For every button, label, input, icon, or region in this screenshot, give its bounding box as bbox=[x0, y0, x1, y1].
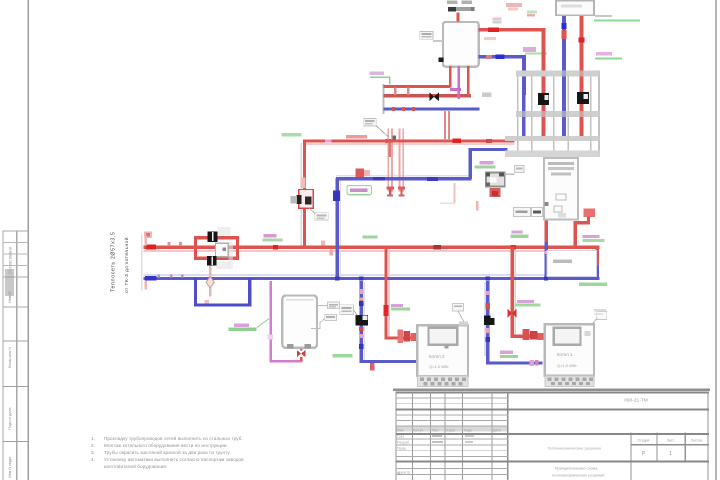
tick red below main x330 bbox=[330, 249, 334, 255]
boiler1 door bbox=[429, 328, 458, 345]
wire blue right end drop bbox=[595, 266, 599, 281]
buffer tank left leader bbox=[433, 40, 443, 42]
svg-text:Теплосеть 2Ø57х3,5: Теплосеть 2Ø57х3,5 bbox=[111, 231, 117, 292]
check valve bowtie under DHW tank a bbox=[297, 350, 301, 357]
wire blue line y109 bbox=[384, 107, 480, 110]
tick on blue main x181 bbox=[181, 274, 184, 277]
tick on blue main x170 bbox=[170, 274, 173, 277]
boiler2 right cap bbox=[584, 331, 590, 336]
elevator bypass left vertical bbox=[194, 236, 197, 260]
red stub tank to valve bbox=[300, 346, 303, 350]
DHW label box 2 bbox=[325, 314, 337, 320]
signature marks bbox=[432, 435, 442, 437]
red double drop to y140 line b bbox=[448, 111, 450, 141]
black valve top of elevator bbox=[207, 231, 217, 242]
svg-text:3.: 3. bbox=[91, 450, 95, 455]
wire red to boiler2 y336 bbox=[510, 335, 545, 338]
circulation pump B notch bbox=[584, 94, 588, 99]
heat exchanger red overlay left bbox=[388, 141, 391, 157]
pump P2 white notch bbox=[490, 313, 495, 318]
buffer tank left label bars bbox=[421, 33, 431, 35]
wire red to boiler1 y337 bbox=[384, 336, 418, 339]
red elbow down x543 bbox=[542, 28, 546, 93]
boiler1 label bar bbox=[454, 305, 462, 307]
junction tick blue main x487 bbox=[486, 276, 490, 280]
svg-text:Дата: Дата bbox=[493, 428, 501, 432]
manifold gray upright 1 bbox=[517, 77, 519, 151]
tick red below pump x361 bbox=[359, 327, 364, 331]
boiler2 label box above right bbox=[597, 311, 607, 319]
svg-text:Принципиальная схема: Принципиальная схема bbox=[555, 466, 599, 471]
label magenta green right of boiler1 riser bbox=[391, 304, 403, 307]
valve bowtie on boiler2 riser a bbox=[508, 309, 512, 318]
magenta cold water riser x270 bbox=[270, 281, 272, 362]
svg-text:Котел 1: Котел 1 bbox=[557, 352, 573, 357]
leader line to valve bbox=[309, 208, 315, 214]
red tick on blue y109 c bbox=[412, 107, 415, 111]
heat exchanger bottom header b bbox=[398, 186, 405, 189]
wire blue boiler2 return y362 bbox=[486, 361, 542, 364]
red boiler1 riser x386 bbox=[384, 247, 387, 338]
blue pump riser x361 bbox=[360, 281, 363, 361]
pale diamond on drain bbox=[206, 277, 214, 288]
blue elbow down x526 bbox=[522, 55, 526, 95]
heat exchanger foot a bbox=[387, 194, 393, 196]
red boiler2 riser x512 bbox=[510, 247, 514, 337]
manifold bar overlays bbox=[516, 71, 600, 77]
mixing valve dark corner b bbox=[499, 173, 504, 177]
green tick line at elbow bbox=[525, 53, 547, 55]
svg-text:от ТК-3 до котельной: от ТК-3 до котельной bbox=[123, 237, 130, 293]
label box with leader under valve bbox=[315, 213, 328, 220]
DHW tank cylinder bbox=[282, 296, 317, 348]
magenta label above blue elbow bbox=[523, 47, 536, 52]
DHW label box 1 bars bbox=[329, 304, 338, 306]
tick pink on riser x488 bbox=[485, 291, 490, 295]
actuator black part b bbox=[305, 196, 311, 204]
heat exchanger label box bbox=[364, 118, 376, 126]
label green above boiler1 return bbox=[332, 354, 352, 357]
valve cluster boiler1 inlet a bbox=[398, 330, 404, 344]
heat exchanger bottom stub a bbox=[389, 189, 391, 195]
title col line x462 bbox=[462, 392, 463, 480]
tall box text line1 bbox=[548, 162, 574, 165]
dark tick upper red line x486 bbox=[486, 139, 492, 143]
title row b1 bbox=[395, 438, 508, 441]
tall box left label box a bbox=[514, 207, 531, 216]
tall box edge tick bbox=[545, 202, 549, 206]
wire red main right end drop bbox=[595, 247, 599, 267]
pale stub b bbox=[476, 201, 478, 211]
title row izm thick bbox=[395, 433, 709, 435]
green elbow line upper left bbox=[370, 77, 390, 84]
red inlet stub down bbox=[144, 280, 147, 289]
red riser from tall box x546 bbox=[544, 220, 547, 244]
left stamp row line 5 bbox=[3, 277, 29, 278]
junction tick blue main x336 bbox=[335, 276, 339, 280]
black valve bottom white slit bbox=[211, 257, 213, 265]
wire magenta cold water bottom run bbox=[270, 360, 303, 363]
heat exchanger leader line bbox=[376, 126, 389, 137]
svg-text:N док.: N док. bbox=[446, 428, 456, 432]
dark segment on upper blue line left of HX bbox=[373, 177, 385, 181]
boiler2 base strip bbox=[545, 376, 594, 387]
top box faint text bbox=[561, 5, 582, 8]
tick on red main x167 bbox=[167, 242, 170, 246]
svg-text:Котел 2: Котел 2 bbox=[429, 354, 445, 359]
circulation pump A notch bbox=[545, 95, 549, 100]
red jog horizontal x577 bbox=[574, 221, 591, 224]
pale tick above valve bbox=[301, 178, 306, 189]
svg-text:Q=1,0 МВт: Q=1,0 МВт bbox=[429, 364, 449, 369]
pale companion riser x386 bbox=[388, 249, 390, 337]
title row c2 bbox=[395, 473, 508, 476]
manifold gray upright 5 bbox=[590, 77, 592, 151]
pale companion riser x361 bbox=[363, 282, 365, 360]
NOTES bbox=[91, 435, 244, 469]
pump label leader bbox=[353, 310, 357, 315]
title right edge bbox=[707, 392, 708, 480]
svg-text:Монтаж котельного оборудования: Монтаж котельного оборудования вести по … bbox=[104, 443, 228, 448]
elevator gray housing fuzz right bbox=[229, 242, 234, 269]
valve cluster boiler2 inlet a bbox=[523, 329, 530, 340]
junction tick blue main x360 bbox=[359, 276, 363, 280]
red tick on blue outlet bbox=[486, 55, 492, 59]
title row c1 bbox=[395, 467, 508, 470]
floor line bbox=[393, 388, 710, 391]
red double drop to y140 line a bbox=[444, 111, 446, 141]
PIPING bbox=[141, 139, 600, 371]
label pink green near tank outlet bbox=[493, 17, 502, 20]
mixing valve label box bbox=[515, 165, 524, 172]
pale companion above upper blue line bbox=[336, 175, 472, 177]
elevator gray housing fuzz upper bbox=[218, 227, 231, 236]
circulation pump A black bbox=[538, 93, 549, 105]
title header text row bbox=[397, 428, 501, 432]
faint boundary line at inlet bbox=[141, 235, 142, 291]
gate valve with actuator on riser x304 bbox=[299, 190, 314, 209]
valve bowtie on boiler2 riser b bbox=[512, 309, 517, 318]
label text bar bbox=[316, 215, 326, 217]
actuator black part a bbox=[297, 195, 302, 204]
boiler2 base hatch bbox=[548, 377, 594, 385]
pale companion above blue main bbox=[144, 274, 600, 276]
title row b3 bbox=[395, 449, 508, 452]
check valve bowtie under DHW tank b bbox=[301, 350, 305, 357]
wire upper blue line y178 bbox=[336, 177, 472, 180]
elevator bypass top pipe bbox=[194, 236, 239, 239]
heat exchanger pale pipe 1a bbox=[387, 129, 389, 192]
bright tick upper red line x386 bbox=[386, 139, 393, 143]
tick red on riser x488 bbox=[485, 303, 490, 309]
valve cluster boiler2 inlet b bbox=[530, 331, 538, 340]
pink segment on upper red line bbox=[325, 140, 332, 143]
elevator gray housing fuzz lower bbox=[216, 262, 230, 270]
pump P1 DHW black square bbox=[356, 315, 369, 325]
manifold mid bar bbox=[516, 111, 600, 117]
title col line x430 bbox=[430, 392, 431, 480]
red connector stub b between upper lines bbox=[407, 88, 410, 96]
leader green diagonal bbox=[257, 319, 269, 328]
boiler1 base hatch bbox=[420, 378, 466, 386]
junction tick blue main x545 bbox=[544, 276, 548, 280]
svg-text:Тепломеханические решения: Тепломеханические решения bbox=[547, 446, 600, 451]
wire blue boiler1 return y361 bbox=[360, 360, 418, 363]
valve cluster boiler2 inlet c bbox=[538, 333, 545, 340]
svg-text:N: N bbox=[398, 471, 401, 476]
svg-text:Разраб.: Разраб. bbox=[397, 441, 410, 445]
red tick on blue y109 a bbox=[392, 107, 395, 111]
label green above red main x511 bbox=[511, 234, 529, 237]
label gray text right of top box bbox=[595, 15, 612, 17]
mixing valve red blob below bbox=[490, 188, 501, 197]
manifold red riser 2 below pump bbox=[580, 104, 584, 136]
gray header pipe end x384 bbox=[383, 84, 385, 114]
pale companion riser x488 bbox=[484, 282, 486, 356]
left stamp row line 2 bbox=[3, 242, 29, 243]
blue riser x337 bbox=[336, 178, 339, 280]
tick darkblue2 below pump x361 bbox=[359, 344, 364, 349]
heat exchanger bottom header a bbox=[387, 186, 394, 189]
title col line x492 bbox=[492, 392, 493, 480]
tall box left label b dark text bbox=[533, 210, 541, 213]
tall box left label a text bbox=[516, 210, 528, 213]
valve on boiler1 riser bbox=[383, 305, 388, 316]
label magenta above bbox=[234, 323, 249, 326]
label magenta green near valve cluster bbox=[480, 161, 494, 164]
title row a2 bbox=[395, 402, 508, 405]
elevator bypass right vertical bbox=[236, 236, 239, 260]
left stamp row line 4 bbox=[3, 265, 29, 266]
manifold top bar bbox=[516, 71, 600, 77]
bright valve on red outlet bbox=[488, 27, 499, 32]
DHW label leader 1 bbox=[317, 304, 327, 306]
red riser x304 bbox=[303, 141, 306, 247]
DHW tank foot b bbox=[305, 344, 312, 349]
red stub valve to magenta bbox=[300, 357, 303, 361]
label green pressure unit near riser x337 bbox=[347, 185, 372, 194]
manifold gray upright 6 bbox=[598, 71, 600, 158]
blue riser lower x546 bbox=[544, 242, 547, 278]
label green left of red corner x283 bbox=[282, 133, 302, 137]
label red blob top center bbox=[506, 3, 522, 7]
tick pink below pump x488 bbox=[485, 328, 490, 333]
svg-text:Пров.: Пров. bbox=[397, 447, 407, 451]
DHW label box 1 bbox=[327, 302, 339, 309]
title col line x657 bbox=[656, 433, 657, 463]
sheet left border bbox=[28, 0, 29, 480]
stage header texts bbox=[638, 439, 702, 443]
valve on blue main near inlet bbox=[145, 276, 157, 281]
blue dip loop left leg bbox=[194, 278, 197, 307]
DHW label leader 2 bbox=[311, 318, 325, 328]
svg-text:Инв.N˚: Инв.N˚ bbox=[7, 290, 12, 303]
valve cluster boiler1 inlet b bbox=[404, 331, 411, 342]
heat exchanger label bars bbox=[365, 120, 374, 122]
EQUIPMENT bbox=[282, 1, 606, 387]
boiler1 body bbox=[417, 325, 468, 376]
wire red tank outlet y30 bbox=[479, 28, 546, 31]
buffer tank black drain square bbox=[439, 57, 444, 62]
title row a6 bbox=[395, 424, 508, 427]
DHW tank inner top line bbox=[286, 299, 314, 300]
bright tick on blue riser2 bbox=[562, 23, 567, 29]
mixing valve dark corner a bbox=[486, 173, 490, 177]
left stamp row line 6 bbox=[3, 307, 29, 308]
white cell gray text bbox=[553, 259, 572, 262]
wire blue return main T2 bbox=[144, 277, 600, 280]
tall box text line2 bbox=[548, 167, 574, 170]
pale tick on magenta riser bbox=[268, 335, 274, 340]
mixing valve leader right bbox=[505, 174, 515, 176]
label green below blue main right end bbox=[579, 283, 607, 286]
title row name thick bbox=[395, 460, 709, 462]
label magenta text inside bbox=[350, 189, 368, 192]
junction tick red main x511 bbox=[511, 245, 517, 249]
red main restroke over HX bbox=[385, 139, 408, 142]
buffer tank bottom stub a bbox=[449, 66, 452, 88]
svg-text:Листов: Листов bbox=[691, 439, 702, 443]
tick orange on riser x361 bbox=[359, 298, 364, 301]
title bottom-left col line x395 bbox=[395, 392, 396, 480]
blue elbow vertical x470 bbox=[469, 148, 472, 179]
boiler1 label box above bbox=[452, 303, 463, 311]
title row a5 bbox=[395, 419, 508, 422]
tick pink on riser x361 bbox=[359, 289, 364, 294]
boiler2 body bbox=[545, 324, 594, 376]
red valve unit box top right bbox=[584, 208, 595, 216]
magenta label above green elbow bbox=[370, 71, 385, 75]
buffer tank left label box bbox=[420, 31, 433, 39]
boiler1 door tab bbox=[444, 345, 448, 348]
pale companion under upper red line bbox=[303, 143, 515, 145]
manifold lower bar1 bbox=[505, 136, 600, 141]
magenta riser from tank bottom bbox=[458, 66, 461, 99]
svg-text:Инв.N подл.: Инв.N подл. bbox=[7, 456, 12, 478]
svg-text:Взам.инв.N: Взам.инв.N bbox=[7, 347, 12, 368]
label magenta green left of boiler2 bbox=[500, 351, 513, 354]
label magenta above green line y58 bbox=[596, 52, 612, 56]
bright tick upper red line x452 bbox=[453, 139, 462, 144]
pump P1 white notch bbox=[363, 316, 368, 320]
black valve top white slit bbox=[212, 232, 214, 241]
tick darkblue on riser x361 bbox=[359, 301, 364, 306]
red riser from manifold x577 bbox=[574, 221, 577, 247]
manifold gray upright 3 bbox=[553, 77, 555, 151]
boiler1 label leader bbox=[458, 311, 464, 322]
boiler1 top right cap bbox=[459, 322, 468, 326]
left stamp row line 7 bbox=[3, 341, 29, 342]
dark segment on upper blue line bbox=[427, 177, 438, 181]
label green above red main x363 bbox=[363, 235, 378, 238]
heat exchanger pale pipe 2a bbox=[399, 129, 401, 192]
svg-text:Лист: Лист bbox=[432, 428, 440, 432]
valve tick on red main x273 bbox=[273, 245, 278, 249]
pale label above blue outlet bbox=[484, 37, 496, 40]
pale companion riser x512 bbox=[514, 249, 516, 336]
heat exchanger pale pipe 2b bbox=[402, 129, 404, 192]
red stub from valve unit bbox=[587, 217, 590, 222]
left margin stamp outer line bbox=[3, 231, 4, 480]
left stamp smudge bbox=[5, 269, 14, 296]
buffer tank top stub red bbox=[456, 13, 459, 22]
svg-text:Трубы окрасить масляной краско: Трубы окрасить масляной краской за два р… bbox=[104, 449, 231, 455]
pale companion under red main bbox=[144, 250, 600, 252]
wire red line y86 bbox=[384, 85, 451, 88]
svg-text:1.: 1. bbox=[91, 436, 95, 441]
title left text rows bbox=[397, 435, 411, 475]
manifold red riser 2 bbox=[580, 15, 584, 92]
sheet right border bbox=[715, 0, 717, 480]
label faint gray under right end bbox=[594, 309, 606, 311]
blue dip loop bottom pipe bbox=[194, 303, 252, 306]
pump P2 boiler2 black square bbox=[484, 315, 494, 325]
boiler2 door bbox=[554, 328, 581, 345]
left stamp row line 8 bbox=[3, 386, 29, 387]
manifold red riser 1 segment below pump bbox=[542, 105, 546, 136]
white cell between mains right end bbox=[547, 251, 597, 277]
manifold gray upright 4 bbox=[567, 77, 569, 151]
boiler1 base strip bbox=[417, 376, 468, 386]
tick darkblue below pump x488 bbox=[485, 337, 490, 342]
title top edge bbox=[395, 392, 709, 394]
red inlet stub up bbox=[144, 235, 147, 245]
tick red above main x321 bbox=[321, 241, 325, 246]
tall box inner sketch c bbox=[558, 213, 566, 218]
faint gray line y203 bbox=[440, 203, 455, 205]
dark valve on red main x434 bbox=[434, 245, 442, 250]
valve on blue riser x337 bbox=[333, 190, 340, 201]
svg-text:Кол.уч.: Кол.уч. bbox=[413, 428, 424, 432]
mixing valve red blob core bbox=[492, 191, 498, 196]
wire red supply main T1 bbox=[144, 246, 600, 249]
pale dashed stub a bbox=[453, 183, 455, 203]
buffer tank label row1 bbox=[447, 1, 458, 4]
title col line x631 bbox=[630, 433, 631, 480]
red valve bulge on riser2 bbox=[579, 37, 585, 42]
wire upper red line y140 bbox=[303, 139, 515, 142]
pink tick on riser x546 bbox=[544, 251, 549, 254]
pale drain drop from elevator bbox=[209, 265, 212, 296]
valve on red main near inlet bbox=[146, 245, 156, 250]
svg-text:Подп.: Подп. bbox=[464, 428, 473, 432]
title col line x445 bbox=[445, 392, 446, 480]
svg-text:Изм.: Изм. bbox=[397, 428, 404, 432]
green underline label y58 bbox=[595, 58, 622, 60]
boiler2 label leader bbox=[592, 318, 598, 325]
title col line x412 bbox=[412, 392, 413, 480]
left stamp row line 9 bbox=[3, 441, 29, 442]
label green DHW cold water with leader bbox=[229, 328, 257, 332]
title col thick line x508 bbox=[507, 392, 509, 480]
elevator body white box bbox=[216, 243, 229, 257]
expansion top box bbox=[556, 1, 594, 16]
red text marks on upper red line bbox=[346, 135, 367, 139]
elevator body inner mark bbox=[222, 247, 226, 251]
valve cluster boiler1 inlet c bbox=[411, 333, 418, 341]
title row header cells bbox=[630, 444, 709, 445]
label green magenta right of boiler2 riser bbox=[517, 300, 534, 303]
buffer tank bottom stub c bbox=[467, 66, 470, 97]
title row b2 bbox=[395, 443, 508, 446]
buffer tank label row2 dark text bbox=[448, 7, 456, 12]
label magenta-green near x583 bbox=[583, 235, 600, 238]
three way valve black on y95 line bbox=[429, 92, 434, 101]
elevator bypass bottom pipe bbox=[194, 257, 239, 260]
svg-text:Подп.и дата: Подп.и дата bbox=[7, 407, 12, 430]
blue elbow at boiler2 return bbox=[486, 354, 490, 363]
red stub below return line bbox=[370, 363, 374, 371]
